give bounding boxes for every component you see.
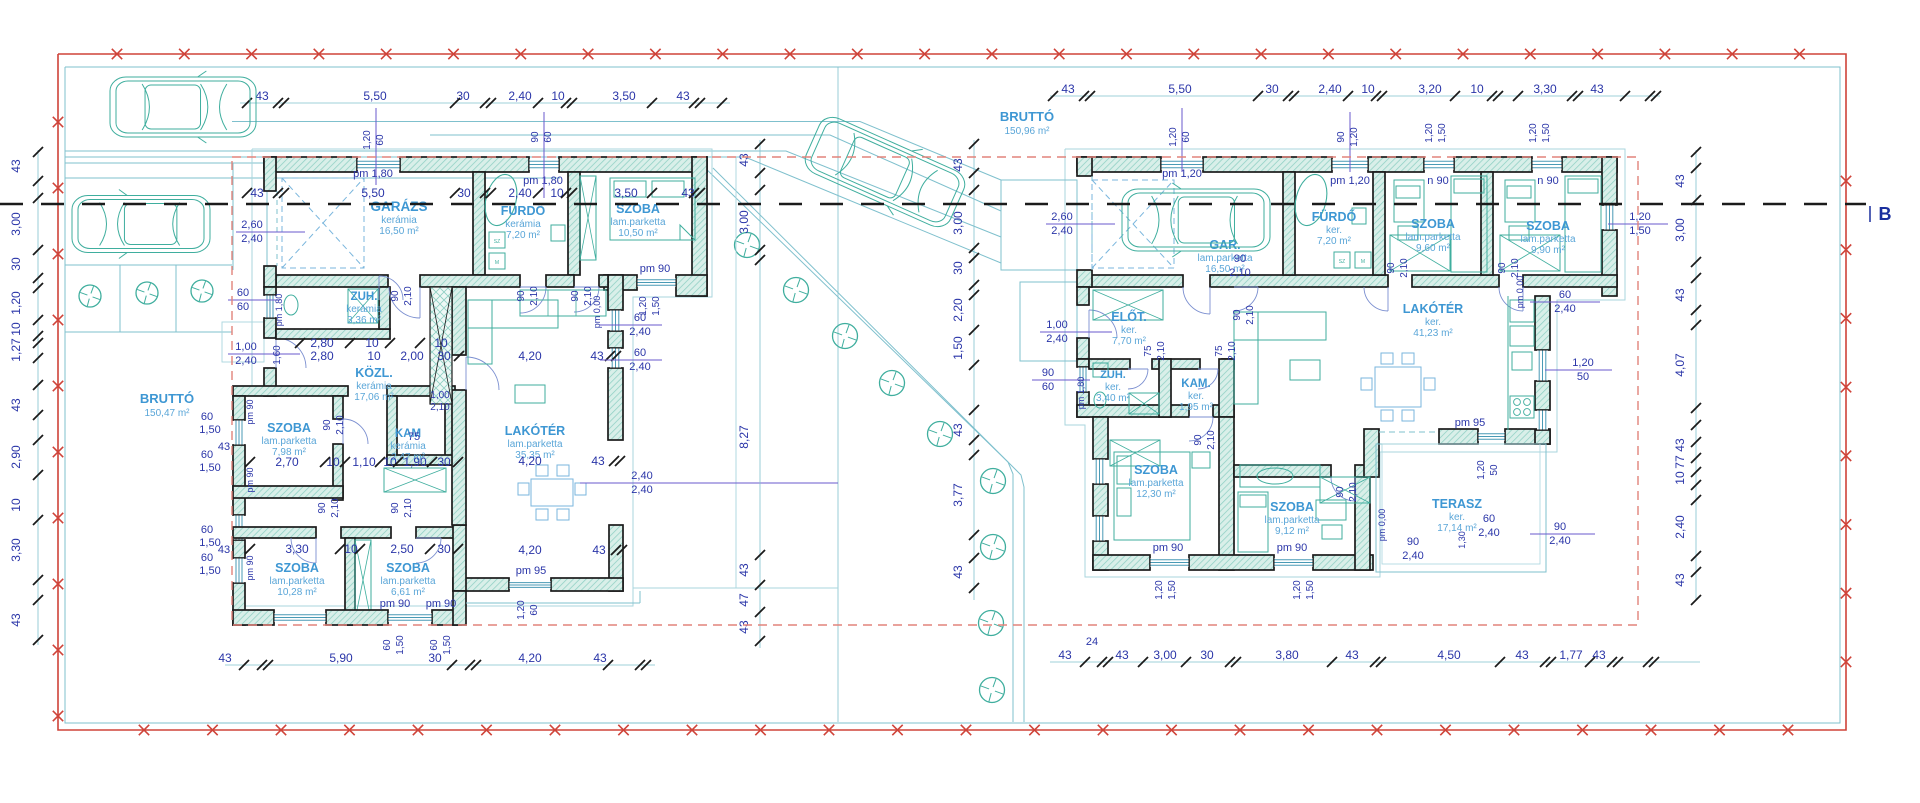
svg-text:1,50: 1,50 bbox=[199, 537, 220, 549]
svg-text:30: 30 bbox=[9, 257, 23, 271]
svg-text:41,23 m²: 41,23 m² bbox=[1413, 328, 1453, 339]
svg-text:60: 60 bbox=[529, 604, 540, 616]
svg-text:2,10: 2,10 bbox=[1227, 341, 1238, 361]
svg-text:43: 43 bbox=[1673, 438, 1687, 452]
svg-text:43: 43 bbox=[250, 186, 264, 200]
house 1 top dim chain bbox=[240, 89, 730, 108]
house 1 inner dim chain bbox=[242, 168, 705, 200]
svg-text:2,50: 2,50 bbox=[390, 542, 414, 556]
svg-text:43: 43 bbox=[592, 543, 606, 557]
svg-text:90: 90 bbox=[530, 131, 541, 143]
svg-text:3,00: 3,00 bbox=[1673, 218, 1687, 242]
svg-text:43: 43 bbox=[1345, 648, 1359, 662]
garage 1 apron bbox=[222, 163, 267, 362]
svg-text:12,30 m²: 12,30 m² bbox=[1136, 489, 1176, 500]
svg-text:90: 90 bbox=[1193, 434, 1204, 446]
house 2 top dim chain bbox=[1048, 82, 1661, 101]
svg-text:pm 1,80: pm 1,80 bbox=[523, 175, 563, 187]
svg-text:1,30: 1,30 bbox=[1457, 531, 1467, 549]
trees along driveway bbox=[735, 233, 1006, 703]
svg-text:BRUTTÓ: BRUTTÓ bbox=[140, 391, 194, 406]
svg-text:M: M bbox=[495, 260, 499, 266]
house 2 szoba912 walls bbox=[1234, 465, 1370, 570]
svg-text:10: 10 bbox=[365, 336, 379, 350]
svg-text:lam.parketta: lam.parketta bbox=[610, 217, 665, 228]
svg-text:1,50: 1,50 bbox=[1629, 225, 1650, 237]
house 1 kam walls bbox=[387, 396, 455, 465]
house 1 door labels bbox=[317, 286, 594, 518]
svg-text:3,77: 3,77 bbox=[951, 483, 965, 507]
svg-text:10,28 m²: 10,28 m² bbox=[277, 587, 317, 598]
svg-text:5,50: 5,50 bbox=[363, 89, 387, 103]
car on driveway bbox=[798, 107, 972, 237]
svg-text:ker.: ker. bbox=[1449, 512, 1465, 523]
svg-text:9,60 m²: 9,60 m² bbox=[1416, 243, 1451, 254]
svg-text:90: 90 bbox=[390, 290, 401, 302]
svg-text:3,30: 3,30 bbox=[285, 542, 309, 556]
house 2 right side dims bbox=[1455, 211, 1668, 480]
svg-text:1,50: 1,50 bbox=[1305, 580, 1316, 600]
svg-text:2,40: 2,40 bbox=[1478, 527, 1499, 539]
svg-text:1,50: 1,50 bbox=[199, 424, 220, 436]
svg-text:kerámia: kerámia bbox=[346, 304, 382, 315]
svg-text:SZOBA: SZOBA bbox=[1411, 217, 1455, 231]
svg-text:43: 43 bbox=[9, 613, 23, 627]
house 2 interior top walls bbox=[1283, 172, 1493, 275]
svg-text:pm 90: pm 90 bbox=[380, 598, 411, 610]
house 2 bottom dim chain bbox=[1050, 636, 1700, 667]
house 1 bottom szoba separator bbox=[345, 538, 371, 625]
svg-text:GARÁZS: GARÁZS bbox=[371, 199, 428, 214]
mid-right vertical chain (3,77) bbox=[951, 139, 979, 600]
svg-text:ker.: ker. bbox=[1326, 225, 1342, 236]
svg-text:lam.parketta: lam.parketta bbox=[507, 439, 562, 450]
svg-text:10: 10 bbox=[1361, 82, 1375, 96]
svg-text:150,47 m²: 150,47 m² bbox=[144, 408, 190, 419]
svg-text:pm 1,80: pm 1,80 bbox=[1076, 377, 1086, 410]
svg-text:30: 30 bbox=[951, 261, 965, 275]
svg-text:1,00: 1,00 bbox=[235, 341, 256, 353]
svg-text:2,90: 2,90 bbox=[9, 445, 23, 469]
svg-text:6,61 m²: 6,61 m² bbox=[391, 587, 426, 598]
svg-text:43: 43 bbox=[1515, 648, 1529, 662]
svg-text:43: 43 bbox=[255, 89, 269, 103]
svg-text:60: 60 bbox=[201, 411, 213, 423]
svg-text:4,07: 4,07 bbox=[1673, 353, 1687, 377]
svg-text:90: 90 bbox=[1336, 131, 1347, 143]
house 1 garage floor marking bbox=[282, 178, 364, 268]
svg-text:2,40: 2,40 bbox=[1318, 82, 1342, 96]
svg-text:pm 90: pm 90 bbox=[1153, 542, 1184, 554]
svg-text:30: 30 bbox=[1265, 82, 1279, 96]
svg-text:4,20: 4,20 bbox=[518, 543, 542, 557]
house 1 lakoter right wall with windows bbox=[608, 275, 623, 440]
svg-text:75: 75 bbox=[408, 431, 420, 443]
svg-text:1,00: 1,00 bbox=[1046, 319, 1067, 331]
svg-text:1,50: 1,50 bbox=[442, 635, 453, 655]
svg-text:3,00: 3,00 bbox=[737, 210, 751, 234]
house 1 garage/furdo wall bbox=[473, 172, 485, 275]
svg-text:60: 60 bbox=[201, 449, 213, 461]
house 1 bed bbox=[610, 178, 695, 240]
svg-text:150,96 m²: 150,96 m² bbox=[1004, 126, 1050, 137]
svg-text:60: 60 bbox=[375, 134, 386, 146]
svg-text:B: B bbox=[1879, 204, 1892, 224]
section line B-B bbox=[0, 204, 1892, 224]
svg-text:10: 10 bbox=[367, 349, 381, 363]
svg-text:2,10: 2,10 bbox=[335, 415, 346, 435]
left vertical chain bbox=[9, 147, 43, 645]
svg-text:43: 43 bbox=[737, 563, 751, 577]
svg-text:1,20: 1,20 bbox=[1349, 127, 1360, 147]
house 1 sofa bbox=[468, 300, 558, 403]
house 1 bottom window labels bbox=[380, 454, 838, 655]
house 1 exterior top wall bbox=[264, 157, 707, 172]
svg-text:pm 0,00: pm 0,00 bbox=[1377, 509, 1387, 542]
svg-text:M: M bbox=[1361, 259, 1365, 265]
svg-text:4,50: 4,50 bbox=[1437, 648, 1461, 662]
svg-text:90: 90 bbox=[1232, 309, 1243, 321]
svg-text:2,40: 2,40 bbox=[1549, 535, 1570, 547]
svg-text:2,40: 2,40 bbox=[629, 326, 650, 338]
svg-text:2,60: 2,60 bbox=[241, 219, 262, 231]
svg-text:SZOBA: SZOBA bbox=[275, 561, 319, 575]
setback line (red dashed) bbox=[232, 157, 1638, 625]
svg-text:43: 43 bbox=[1590, 82, 1604, 96]
house 1 doors middle band bbox=[379, 276, 599, 318]
svg-text:1,20: 1,20 bbox=[1572, 357, 1593, 369]
svg-text:2,10: 2,10 bbox=[1206, 430, 1217, 450]
svg-text:10: 10 bbox=[9, 498, 23, 512]
svg-text:43: 43 bbox=[1115, 648, 1129, 662]
svg-text:2,40: 2,40 bbox=[1051, 225, 1072, 237]
inner cyan boundary bbox=[65, 67, 1840, 723]
svg-text:1,20: 1,20 bbox=[1476, 460, 1487, 480]
house 1 dining table bbox=[518, 465, 586, 520]
svg-text:43: 43 bbox=[737, 153, 751, 167]
svg-text:n 90: n 90 bbox=[1537, 175, 1558, 187]
svg-text:7,70 m²: 7,70 m² bbox=[1112, 336, 1147, 347]
svg-text:10: 10 bbox=[1470, 82, 1484, 96]
svg-text:2,10: 2,10 bbox=[1348, 482, 1359, 502]
house 2 left wall bbox=[1077, 157, 1117, 417]
svg-text:43: 43 bbox=[1592, 648, 1606, 662]
mid-left vertical chain (8,27) bbox=[737, 139, 765, 648]
svg-text:SZOBA: SZOBA bbox=[1270, 500, 1314, 514]
svg-text:SZOBA: SZOBA bbox=[1526, 219, 1570, 233]
garage 2 apron bbox=[1001, 180, 1077, 361]
house 1 terrace step bbox=[466, 157, 838, 603]
svg-text:60: 60 bbox=[201, 524, 213, 536]
svg-text:90: 90 bbox=[1407, 536, 1419, 548]
svg-text:30: 30 bbox=[437, 349, 451, 363]
svg-text:77: 77 bbox=[1673, 455, 1687, 469]
svg-text:SZOBA: SZOBA bbox=[386, 561, 430, 575]
svg-text:60: 60 bbox=[1483, 513, 1495, 525]
svg-text:8,27: 8,27 bbox=[737, 425, 751, 449]
house 2 sofa bbox=[1234, 312, 1326, 404]
house 1 left window labels bbox=[199, 399, 255, 580]
svg-text:2,10: 2,10 bbox=[1399, 258, 1410, 278]
svg-text:30: 30 bbox=[437, 542, 451, 556]
svg-text:3,50: 3,50 bbox=[614, 186, 638, 200]
svg-text:43: 43 bbox=[9, 398, 23, 412]
svg-text:60: 60 bbox=[543, 131, 554, 143]
svg-text:2,80: 2,80 bbox=[310, 349, 334, 363]
svg-text:1,20: 1,20 bbox=[1292, 580, 1303, 600]
svg-text:2,00: 2,00 bbox=[400, 349, 424, 363]
house 1 furdo/szoba wall bbox=[568, 172, 580, 275]
svg-text:2,10: 2,10 bbox=[403, 498, 414, 518]
svg-text:2,40: 2,40 bbox=[1554, 303, 1575, 315]
svg-text:SZ: SZ bbox=[494, 239, 500, 245]
svg-text:LAKÓTÉR: LAKÓTÉR bbox=[1403, 301, 1463, 316]
svg-text:1,77: 1,77 bbox=[1559, 648, 1583, 662]
svg-text:43: 43 bbox=[737, 620, 751, 634]
svg-text:3,80: 3,80 bbox=[1275, 648, 1299, 662]
svg-text:90: 90 bbox=[1386, 262, 1397, 274]
svg-text:2,40: 2,40 bbox=[241, 233, 262, 245]
svg-text:1,20: 1,20 bbox=[516, 600, 527, 620]
house 1 bottom rooms top wall bbox=[233, 527, 461, 563]
svg-text:43: 43 bbox=[676, 89, 690, 103]
svg-text:1,20: 1,20 bbox=[9, 291, 23, 315]
house 1 room labels bbox=[140, 199, 666, 598]
svg-text:2,10: 2,10 bbox=[529, 286, 540, 306]
svg-text:2,10: 2,10 bbox=[1156, 341, 1167, 361]
house 2 furdo fixtures bbox=[1290, 171, 1371, 268]
house 2 room labels bbox=[1000, 109, 1576, 537]
svg-text:60: 60 bbox=[1181, 131, 1192, 143]
svg-text:2,10: 2,10 bbox=[403, 286, 414, 306]
svg-text:2,40: 2,40 bbox=[508, 89, 532, 103]
svg-text:3,40 m²: 3,40 m² bbox=[1096, 393, 1131, 404]
svg-text:2,40: 2,40 bbox=[235, 355, 256, 367]
svg-text:BRUTTÓ: BRUTTÓ bbox=[1000, 109, 1054, 124]
svg-text:16,50 m²: 16,50 m² bbox=[379, 226, 419, 237]
svg-text:kerámia: kerámia bbox=[381, 215, 417, 226]
svg-text:3,30: 3,30 bbox=[1533, 82, 1557, 96]
house 2 terrace bbox=[1376, 444, 1546, 572]
svg-text:1,50: 1,50 bbox=[199, 462, 220, 474]
svg-text:90: 90 bbox=[570, 290, 581, 302]
svg-text:90: 90 bbox=[1497, 262, 1508, 274]
house 2 beds top rooms bbox=[1394, 176, 1601, 272]
svg-text:ELŐT.: ELŐT. bbox=[1111, 309, 1146, 324]
svg-text:43: 43 bbox=[1061, 82, 1075, 96]
house 1 vertical dim labels bbox=[272, 108, 670, 373]
car parked top-left 1 bbox=[110, 71, 256, 143]
svg-text:1,50: 1,50 bbox=[395, 635, 406, 655]
svg-text:10: 10 bbox=[434, 336, 448, 350]
svg-text:2,40: 2,40 bbox=[629, 361, 650, 373]
svg-text:5,90: 5,90 bbox=[329, 651, 353, 665]
house 2 interior door labels bbox=[1143, 253, 1521, 502]
svg-text:43: 43 bbox=[1673, 573, 1687, 587]
svg-text:1,95 m²: 1,95 m² bbox=[1179, 402, 1214, 413]
house 1 szoba661 right wall bbox=[453, 525, 466, 625]
svg-text:3,00: 3,00 bbox=[9, 212, 23, 236]
svg-text:1,50: 1,50 bbox=[1541, 123, 1552, 143]
svg-text:ker.: ker. bbox=[1188, 391, 1204, 402]
property boundary (red) bbox=[58, 54, 1846, 730]
svg-text:50: 50 bbox=[1489, 464, 1500, 476]
svg-text:pm 90: pm 90 bbox=[426, 598, 457, 610]
house 1 left jog wall + szoba798 top bbox=[233, 386, 455, 396]
svg-text:4,20: 4,20 bbox=[518, 651, 542, 665]
svg-text:43: 43 bbox=[593, 651, 607, 665]
svg-text:SZ: SZ bbox=[1339, 259, 1345, 265]
svg-text:2,10: 2,10 bbox=[430, 402, 450, 413]
svg-text:2,10: 2,10 bbox=[1510, 258, 1521, 278]
house 2 eave outline bbox=[1065, 149, 1625, 577]
house 1 szoba top-right bottom wall bbox=[604, 275, 707, 296]
svg-text:60: 60 bbox=[237, 287, 249, 299]
car in garage 2 bbox=[1122, 183, 1270, 257]
svg-text:2,40: 2,40 bbox=[508, 186, 532, 200]
house 1 interior dim rows bbox=[245, 336, 621, 556]
svg-text:17,06 m²: 17,06 m² bbox=[354, 392, 394, 403]
svg-text:pm 95: pm 95 bbox=[516, 565, 547, 577]
svg-text:kerámia: kerámia bbox=[505, 219, 541, 230]
svg-text:2,10: 2,10 bbox=[330, 498, 341, 518]
house 2 garage floor marking bbox=[1092, 180, 1174, 268]
svg-text:10: 10 bbox=[551, 89, 565, 103]
svg-text:pm 90: pm 90 bbox=[245, 399, 255, 424]
svg-text:43: 43 bbox=[591, 454, 605, 468]
svg-text:lam.parketta: lam.parketta bbox=[1128, 478, 1183, 489]
house 2 kitchen appliances bbox=[1508, 296, 1534, 430]
svg-text:1,10: 1,10 bbox=[352, 455, 376, 469]
house 2 szoba1230 walls bbox=[1093, 417, 1234, 570]
house 1 left small dims bbox=[218, 219, 305, 556]
house 1 right wall bbox=[692, 157, 707, 296]
svg-text:2,40: 2,40 bbox=[631, 470, 652, 482]
house 2 elot/zuh/kam bottom band bbox=[1077, 405, 1234, 441]
house 1 wardrobe row bbox=[384, 468, 446, 492]
svg-text:3,30: 3,30 bbox=[9, 538, 23, 562]
svg-text:3,50: 3,50 bbox=[612, 89, 636, 103]
svg-text:60: 60 bbox=[1042, 381, 1054, 393]
svg-text:10,50 m²: 10,50 m² bbox=[618, 228, 658, 239]
svg-text:1,20: 1,20 bbox=[1424, 123, 1435, 143]
svg-text:2,60: 2,60 bbox=[1051, 211, 1072, 223]
svg-text:7,20 m²: 7,20 m² bbox=[1317, 236, 1352, 247]
svg-text:2,40: 2,40 bbox=[1673, 515, 1687, 539]
svg-text:9,12 m²: 9,12 m² bbox=[1275, 526, 1310, 537]
house 2 lakoter bottom band pm95 bbox=[1364, 429, 1550, 477]
house 2 bottom labels bbox=[1153, 542, 1316, 600]
svg-text:pm 1,80: pm 1,80 bbox=[353, 168, 393, 180]
svg-text:lam.parketta: lam.parketta bbox=[1405, 232, 1460, 243]
street lines bbox=[65, 67, 1024, 722]
svg-text:1,50: 1,50 bbox=[199, 565, 220, 577]
house 1 middle wall band bbox=[276, 275, 608, 287]
svg-text:7,20 m²: 7,20 m² bbox=[506, 230, 541, 241]
svg-text:ker.: ker. bbox=[1121, 325, 1137, 336]
svg-text:60: 60 bbox=[1559, 289, 1571, 301]
house 1 kitchen counter bbox=[520, 290, 606, 316]
house 2 kitchen wall bbox=[1535, 296, 1550, 444]
house 2 doors middle band bbox=[1183, 287, 1523, 314]
svg-text:TERASZ: TERASZ bbox=[1432, 497, 1482, 511]
house 2 dining table bbox=[1361, 353, 1435, 421]
svg-text:90: 90 bbox=[317, 502, 328, 514]
svg-text:2,80: 2,80 bbox=[310, 336, 334, 350]
svg-text:30: 30 bbox=[437, 455, 451, 469]
svg-text:43: 43 bbox=[1058, 648, 1072, 662]
svg-text:43: 43 bbox=[1673, 174, 1687, 188]
svg-text:lam.parketta: lam.parketta bbox=[380, 576, 435, 587]
svg-text:1,60: 1,60 bbox=[272, 345, 283, 365]
svg-text:pm 90: pm 90 bbox=[1277, 542, 1308, 554]
house 1 eave outline bbox=[240, 149, 712, 606]
svg-text:10: 10 bbox=[326, 455, 340, 469]
svg-text:30: 30 bbox=[428, 651, 442, 665]
svg-text:50: 50 bbox=[1577, 371, 1589, 383]
house 2 wardrobes bbox=[1093, 235, 1560, 503]
svg-text:1,50: 1,50 bbox=[951, 336, 965, 360]
svg-text:kerámia: kerámia bbox=[356, 381, 392, 392]
svg-text:60: 60 bbox=[634, 347, 646, 359]
svg-text:pm 1,20: pm 1,20 bbox=[1330, 175, 1370, 187]
svg-text:90: 90 bbox=[1554, 521, 1566, 533]
svg-text:43: 43 bbox=[590, 349, 604, 363]
house 1 bottom wall bbox=[233, 610, 461, 625]
svg-text:43: 43 bbox=[1673, 288, 1687, 302]
house 2 zuh fixtures bbox=[1093, 363, 1159, 414]
svg-text:2,10: 2,10 bbox=[1229, 267, 1250, 279]
svg-text:43: 43 bbox=[951, 565, 965, 579]
svg-text:43: 43 bbox=[218, 651, 232, 665]
svg-text:SZOBA: SZOBA bbox=[267, 421, 311, 435]
svg-text:n 90: n 90 bbox=[1427, 175, 1448, 187]
svg-text:ker.: ker. bbox=[1425, 317, 1441, 328]
house 2 top wall bbox=[1077, 157, 1617, 172]
svg-text:pm 90: pm 90 bbox=[640, 263, 671, 275]
svg-text:1,90: 1,90 bbox=[403, 455, 427, 469]
svg-text:KAM.: KAM. bbox=[1181, 378, 1210, 390]
house 1 left wall upper bbox=[264, 157, 277, 287]
house 2 right wall bbox=[1602, 157, 1617, 296]
house 2 left small dims bbox=[1032, 211, 1115, 409]
svg-text:FÜRDŐ: FÜRDŐ bbox=[1312, 209, 1357, 224]
svg-text:pm 0,00: pm 0,00 bbox=[592, 296, 602, 329]
svg-text:pm 0,00: pm 0,00 bbox=[1515, 276, 1525, 309]
svg-text:43: 43 bbox=[951, 423, 965, 437]
house 2 middle band bbox=[1089, 275, 1617, 287]
svg-text:1,50: 1,50 bbox=[1167, 580, 1178, 600]
house 1 dining bay walls bbox=[453, 525, 623, 591]
svg-text:1,20: 1,20 bbox=[1168, 127, 1179, 147]
svg-text:9,90 m²: 9,90 m² bbox=[1531, 245, 1566, 256]
svg-text:2,40: 2,40 bbox=[1402, 550, 1423, 562]
svg-text:75: 75 bbox=[1143, 345, 1154, 357]
house 2 terrace dims bbox=[1377, 509, 1595, 562]
svg-text:1,20: 1,20 bbox=[1629, 211, 1650, 223]
svg-text:pm 90: pm 90 bbox=[245, 555, 255, 580]
house 1 szoba wardrobe bbox=[580, 176, 596, 260]
house 1 central wall bbox=[452, 287, 499, 525]
house 1 furdo fixtures bbox=[480, 171, 565, 269]
svg-text:SZOBA: SZOBA bbox=[1134, 463, 1178, 477]
svg-text:GAR.: GAR. bbox=[1209, 238, 1240, 252]
svg-text:90: 90 bbox=[1234, 253, 1246, 265]
svg-text:LAKÓTÉR: LAKÓTÉR bbox=[505, 423, 565, 438]
svg-text:43: 43 bbox=[9, 159, 23, 173]
svg-text:lam.parketta: lam.parketta bbox=[1264, 515, 1319, 526]
right vertical chain bbox=[1673, 147, 1701, 605]
